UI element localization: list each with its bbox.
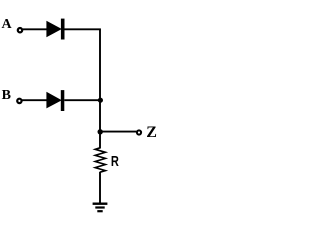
- svg-text:A: A: [2, 17, 13, 32]
- terminal Z: [137, 130, 141, 134]
- terminal B: [17, 99, 21, 103]
- wire D2 to bus: [64, 99, 100, 101]
- wire resistor to ground: [99, 172, 101, 204]
- svg-text:R: R: [111, 154, 119, 170]
- diode D1 cathode bar: [61, 19, 65, 40]
- wire A to D1: [23, 28, 47, 30]
- junction dot at Z branch: [98, 129, 103, 134]
- diode D2 triangle (anode): [46, 92, 61, 109]
- diode D2 cathode bar: [61, 90, 65, 111]
- ground bar 2: [95, 206, 104, 208]
- wire bus to Z terminal: [100, 131, 136, 133]
- diode D1 triangle (anode): [46, 21, 61, 38]
- wire B to D2: [22, 99, 47, 101]
- svg-text:B: B: [2, 88, 11, 103]
- vertical bus wire: [99, 29, 101, 148]
- ground bar 1: [93, 202, 108, 204]
- terminal A: [18, 28, 22, 32]
- resistor R zigzag: [95, 148, 105, 172]
- ground bar 3: [97, 210, 102, 212]
- svg-text:Z: Z: [146, 124, 157, 141]
- wire D1 to corner: [65, 28, 101, 30]
- junction dot at B wire: [98, 98, 103, 103]
